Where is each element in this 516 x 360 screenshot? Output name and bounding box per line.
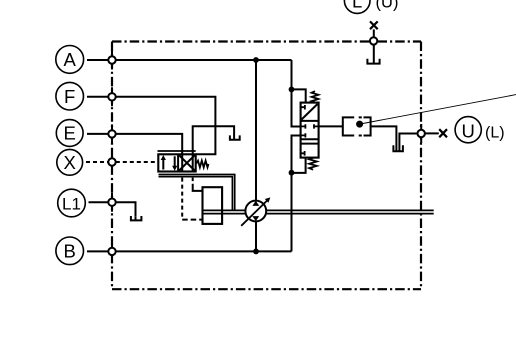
node E label circle — [56, 120, 83, 147]
node A junction dot — [253, 57, 259, 63]
port circle B — [108, 248, 115, 255]
piston rod double line to pump — [222, 210, 245, 213]
spring right — [196, 161, 208, 168]
wire valve to sensor — [319, 125, 343, 127]
top port assembly: plug X — [370, 21, 378, 29]
sensor / measuring connector — [343, 117, 371, 135]
top spring — [312, 91, 319, 102]
svg-text:L1: L1 — [62, 195, 81, 214]
svg-text:B: B — [64, 240, 76, 261]
port circle A — [108, 56, 115, 63]
wire E dashed to cylinder bottom port — [181, 178, 183, 220]
mechanical feedback linkage double line — [159, 175, 235, 211]
wire sensor output to drain — [371, 126, 397, 150]
svg-text:(L): (L) — [485, 125, 505, 142]
tank symbol X-valve drain — [229, 135, 241, 139]
tank symbol top drain — [366, 59, 380, 64]
port circle X — [108, 158, 115, 165]
wire X label to port (dashed pilot) — [86, 161, 108, 163]
pass-through vertical at drain x — [192, 154, 194, 171]
node L label circle top (cut off) — [344, 0, 398, 13]
svg-text:F: F — [64, 86, 75, 107]
wire B line — [116, 250, 292, 252]
enclosure dash-dot border — [112, 42, 421, 290]
node X label circle — [57, 149, 83, 175]
port circle L1 — [108, 199, 115, 206]
pump P1 variable displacement — [241, 197, 270, 225]
bottom box line — [301, 143, 319, 145]
wire U port to plug X — [425, 132, 439, 134]
wire X to top port — [373, 29, 375, 37]
node B label circle — [56, 237, 84, 265]
wire A line inside — [116, 59, 292, 61]
port circle E — [108, 130, 115, 137]
wire U port to drain — [399, 134, 417, 151]
middle box blocked ports — [301, 124, 306, 128]
wire E line — [116, 134, 182, 172]
node L1 label circle — [58, 189, 86, 217]
wire pilot branch to valve top — [292, 89, 306, 102]
valve V2 3-position control (right valve) — [301, 91, 319, 169]
top box blocked port T — [301, 105, 305, 110]
wire pump to B — [255, 221, 257, 251]
extra top parallel line — [158, 150, 196, 152]
node A label circle — [56, 46, 84, 74]
bottom spring — [309, 158, 317, 170]
wire valve bottom port — [292, 158, 306, 173]
wire valve to cylinder top port — [192, 178, 194, 187]
bottom box blocked port T — [301, 151, 305, 156]
X in right box — [178, 154, 196, 171]
wire middle box lower-left port to B — [292, 136, 301, 252]
svg-text:(U): (U) — [376, 0, 399, 12]
node B junction dot — [253, 249, 259, 255]
svg-text:A: A — [64, 49, 77, 70]
valve V1 directional 2-position (X valve) — [158, 151, 209, 172]
port circle U right — [418, 130, 425, 137]
wire A pilot down to valve left port — [292, 60, 301, 127]
svg-text:E: E — [64, 123, 76, 144]
node U label circle — [455, 117, 504, 143]
node pilot junction dot — [289, 87, 295, 93]
wire A label to port — [87, 59, 108, 61]
down arrow — [174, 156, 176, 167]
diagonal in top box — [302, 104, 318, 120]
node F label circle — [56, 82, 84, 110]
wire B label to port — [87, 250, 108, 252]
port circle F — [108, 93, 115, 100]
svg-text:X: X — [64, 152, 76, 173]
wire F line — [116, 97, 216, 155]
tank symbol right drain — [392, 145, 404, 151]
variable arrow — [241, 200, 268, 226]
wire X-valve drain to tank — [193, 126, 234, 154]
port circle top L — [370, 37, 377, 44]
wire L1 to drain — [116, 202, 136, 216]
wire F label to port — [87, 96, 108, 98]
cylinder (stroking piston) — [203, 187, 223, 224]
wire pump to A — [255, 60, 257, 201]
wire L1 label to port — [89, 201, 109, 203]
wire E label to port — [87, 133, 108, 135]
wire port stubs on borders — [112, 42, 421, 261]
wire X pilot dashed inside — [116, 161, 159, 163]
drive shaft double line — [266, 210, 434, 213]
svg-text:L: L — [352, 0, 362, 11]
leader thin line — [363, 95, 516, 124]
up arrow in left box — [162, 159, 164, 170]
svg-text:U: U — [462, 121, 475, 142]
plug X at U — [439, 129, 447, 137]
tank symbol L1 drain — [130, 216, 143, 220]
wire top port to tank — [373, 45, 375, 64]
node junction dot bottom pilot — [289, 170, 295, 176]
